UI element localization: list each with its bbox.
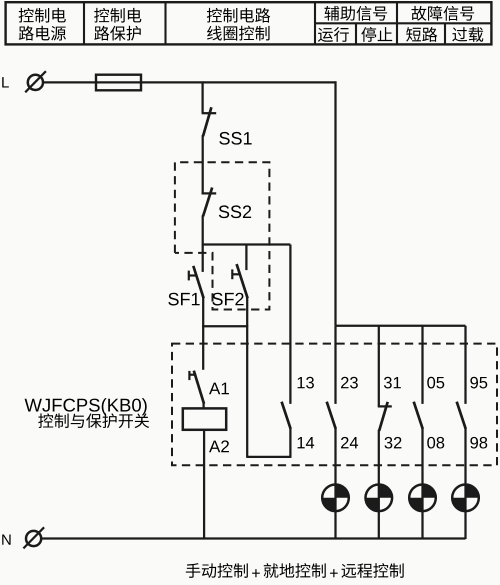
header cell: 停止 [361, 27, 392, 42]
pushbutton SF2 [232, 245, 247, 327]
wire signal bus horizontal [336, 325, 466, 327]
header cell: 辅助信号 [324, 6, 387, 21]
label 23 [341, 377, 358, 389]
contact 95/98 (overload) [457, 326, 466, 539]
coil KB0 A1-A2 [183, 408, 226, 429]
contact 23/24 (run) [327, 326, 336, 539]
fuse FU [96, 75, 141, 91]
label 控制与保护开关 [38, 413, 149, 428]
dashed box remote-control (SS2/SF2) [175, 162, 270, 309]
contact 13/14 (self hold) [247, 245, 290, 458]
switch SS2 [202, 188, 217, 246]
label 05 [427, 377, 444, 389]
header cell: 控制电路电源 [19, 8, 66, 41]
header cell: 故障信号 [411, 6, 474, 21]
label SF1 [168, 293, 199, 306]
terminal N [23, 527, 44, 548]
label SS2 [219, 205, 251, 218]
wire fuse to SS1 node [141, 81, 203, 83]
header cell: 过载 [452, 27, 483, 42]
wire node P (SS2 out to 13 branch) [203, 243, 291, 245]
wire N bus [41, 537, 465, 539]
dashed box WJFCPS(KB0) [172, 344, 497, 466]
header cell: 运行 [318, 27, 349, 42]
label 31 [384, 377, 401, 389]
caption 手动控制+就地控制+远程控制 [186, 563, 404, 578]
lamp HL4 (overload) [452, 485, 479, 512]
contact A1 (aux) [189, 326, 204, 408]
label SS1 [219, 132, 251, 145]
lamp HL3 (short) [409, 485, 436, 512]
label 14 [298, 437, 315, 448]
contact 05/08 (short) [414, 326, 423, 539]
node L label [2, 77, 9, 87]
label 32 [385, 437, 402, 449]
wire node to right bus [203, 81, 337, 83]
label 08 [427, 437, 444, 449]
label A2 [209, 440, 229, 452]
wire L to fuse [43, 81, 96, 83]
label 13 [298, 377, 314, 389]
terminal L [25, 71, 46, 92]
label SF2 [212, 293, 243, 306]
label WJFCPS(KB0) [25, 398, 147, 415]
header cell: 控制电路保护 [94, 8, 141, 41]
header cell: 控制电路线圈控制 [207, 8, 270, 41]
header cell: 短路 [406, 27, 437, 42]
label 98 [470, 437, 487, 449]
wire SF1-SF2 junction [202, 325, 248, 327]
wire A2 to N bus [203, 430, 205, 539]
contact 31/32 (stop, NC) [378, 326, 392, 539]
node N label [2, 534, 10, 544]
wire right bus vertical [334, 81, 336, 325]
header table frame [6, 2, 492, 44]
label A1 [209, 383, 229, 395]
label 95 [470, 377, 487, 389]
pushbutton SF1 [189, 245, 204, 328]
wire SF2 branch down to 14 return [246, 326, 248, 458]
label 24 [341, 437, 358, 449]
switch SS1 [202, 81, 217, 194]
lamp HL2 (stop) [366, 485, 393, 512]
lamp HL1 (run) [322, 485, 349, 512]
